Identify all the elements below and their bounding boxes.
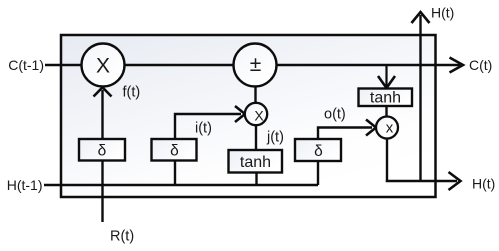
wire C(t-1) to C(t) bbox=[45, 64, 460, 66]
wire output x circle down to H out line bbox=[386, 138, 388, 182]
LSTM cell body bbox=[61, 35, 436, 197]
arrowhead i(t) bbox=[235, 106, 245, 122]
wire i(t) from sigma2 to x circle bbox=[175, 114, 241, 139]
wire tanh to H line bbox=[255, 173, 257, 186]
wire tanh to output x circle bbox=[385, 106, 387, 117]
svg-text:H(t): H(t) bbox=[431, 5, 454, 21]
wire H(t) recurrent up bbox=[419, 15, 421, 181]
svg-text:tanh: tanh bbox=[240, 154, 271, 171]
arrowhead o(t) bbox=[366, 120, 376, 136]
svg-text:o(t): o(t) bbox=[324, 107, 346, 123]
adder circle plus-minus bbox=[234, 44, 277, 87]
multiplier circle x (input gate) bbox=[245, 103, 267, 125]
svg-text:C(t-1): C(t-1) bbox=[8, 57, 44, 73]
svg-text:δ: δ bbox=[98, 143, 107, 160]
svg-text:R(t): R(t) bbox=[110, 229, 134, 245]
svg-text:f(t): f(t) bbox=[123, 85, 141, 101]
multiplier circle x (output gate) bbox=[376, 117, 398, 139]
wire sigma2 to H line bbox=[174, 161, 176, 186]
arrowhead C(t) bbox=[450, 58, 464, 73]
tanh box (output) bbox=[359, 89, 413, 107]
svg-text:X: X bbox=[254, 108, 264, 124]
arrowhead H(t) up bbox=[412, 12, 430, 23]
multiplier circle X (forget gate) bbox=[82, 44, 125, 87]
svg-text:C(t): C(t) bbox=[469, 57, 492, 73]
svg-text:tanh: tanh bbox=[370, 90, 401, 107]
svg-text:i(t): i(t) bbox=[195, 121, 212, 137]
arrowhead into tanh box bbox=[378, 76, 395, 88]
svg-text:j(t): j(t) bbox=[266, 130, 284, 146]
svg-text:H(t-1): H(t-1) bbox=[7, 177, 43, 193]
arrowhead into X circle bbox=[94, 87, 112, 96]
wire R(t) input bbox=[101, 90, 103, 222]
tanh box (candidate) bbox=[229, 150, 283, 173]
sigma box 2 bbox=[152, 139, 197, 161]
svg-text:δ: δ bbox=[314, 143, 323, 160]
sigma box 3 bbox=[295, 139, 341, 161]
svg-text:±: ± bbox=[250, 53, 262, 76]
wire adder to multiplier x bbox=[254, 87, 256, 104]
wire H(t-1) bbox=[44, 184, 318, 186]
wire H(t) output bbox=[386, 180, 457, 182]
sigma box 1 bbox=[79, 139, 125, 161]
wire C line down to tanh (output path) bbox=[385, 66, 387, 86]
arrowhead H(t) output bbox=[449, 172, 461, 190]
svg-text:X: X bbox=[96, 55, 110, 78]
wire sigma3 to H line bbox=[317, 161, 319, 185]
svg-text:δ: δ bbox=[170, 143, 179, 160]
svg-text:x: x bbox=[386, 120, 394, 137]
wire x circle to tanh box bbox=[255, 125, 257, 151]
wire o(t) from sigma3 to output x circle bbox=[318, 128, 372, 140]
svg-text:H(t): H(t) bbox=[472, 176, 495, 192]
